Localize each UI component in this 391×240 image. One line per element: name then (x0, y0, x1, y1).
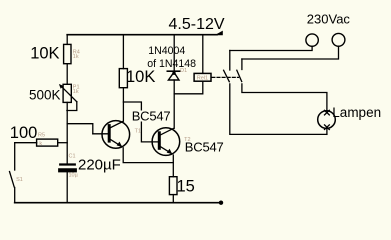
relay contact 2 top lead (241, 59, 243, 70)
svg-text:BC547: BC547 (185, 140, 224, 155)
svg-text:230Vac: 230Vac (307, 12, 351, 27)
transistor Q2 circle (152, 128, 180, 156)
relay contact 1 arm (224, 70, 230, 81)
switch S1 bottom lead (14, 188, 16, 203)
lamp circle (318, 111, 336, 129)
wire left vertical pot to cap (66, 102, 68, 163)
transistor Q2 emitter diagonal (161, 147, 172, 154)
wire coil bottom jog (174, 81, 203, 94)
svg-text:15: 15 (177, 177, 195, 195)
capacitor C1 bottom plate (60, 168, 75, 172)
resistor R5 100 box (37, 139, 58, 146)
relay contact 2 arm (237, 70, 242, 81)
resistor R2 10K box (119, 69, 127, 88)
svg-text:T1: T1 (135, 129, 141, 135)
transistor Q2 base bar (158, 133, 161, 149)
wire rail corner down to R4 (66, 35, 68, 45)
wire 15 ohm to bottom rail (172, 195, 174, 203)
wire rail to coil top (202, 35, 204, 73)
svg-text:Lampen: Lampen (332, 105, 381, 120)
resistor R3 15 box (169, 177, 177, 195)
wire base tap jogs (67, 124, 108, 134)
lamp top cross (325, 110, 330, 115)
relay contact 1 bottom lead to lamp bottom (230, 84, 327, 134)
transistor Q1 circle (102, 121, 130, 149)
capacitor C1 top plate (60, 163, 75, 165)
wire 230V terminal B down-left (242, 46, 339, 59)
wire top supply rail (67, 34, 217, 36)
wire rail to diode (173, 35, 175, 70)
bottom rail end dot (219, 201, 223, 205)
wire T2 emitter to 15 ohm resistor (172, 155, 174, 177)
relay contact 2 bottom lead to lamp top (242, 84, 327, 111)
svg-text:1k: 1k (73, 54, 79, 60)
label BC547 T1 (opaque bg) (131, 111, 169, 122)
svg-text:of 1N4148: of 1N4148 (147, 58, 196, 70)
svg-text:1N4004: 1N4004 (148, 45, 185, 57)
potentiometer arrow (61, 86, 77, 102)
wire R5 right lead (58, 142, 67, 144)
relay coil Rel1 box (194, 73, 211, 81)
wire rail to R2 (122, 35, 124, 69)
diode D1 cathode bar (167, 70, 179, 72)
svg-text:BC547: BC547 (132, 109, 171, 124)
wire cap to bottom rail (66, 172, 68, 202)
lamp bottom cross (325, 125, 330, 130)
wire R5 left lead (15, 142, 37, 144)
resistor R1 10K box (64, 44, 71, 63)
transistor Q1 emitter diagonal (111, 140, 122, 147)
supply arrow head (215, 31, 223, 36)
wire bottom rail (15, 202, 221, 204)
transistor Q1 emitter arrowhead (117, 142, 123, 147)
wire R4 to pot (66, 64, 68, 85)
switch S1 top lead (14, 143, 16, 170)
transistor Q1 collector diagonal (111, 121, 124, 127)
terminal circle A (306, 34, 318, 46)
terminal circle B (332, 33, 345, 46)
svg-text:S1: S1 (16, 177, 23, 183)
diode apex dot (172, 72, 175, 75)
transistor Q1 base bar (108, 126, 111, 142)
svg-text:10K: 10K (30, 45, 59, 63)
svg-text:10µ: 10µ (69, 173, 79, 179)
svg-text:Rel1: Rel1 (197, 76, 208, 82)
relay contact 1 top lead (229, 51, 231, 71)
wire R2 to T1 collector (122, 88, 124, 121)
wire T1 base lead (93, 133, 108, 135)
svg-text:10K: 10K (126, 68, 155, 86)
transistor Q2 collector diagonal (161, 129, 174, 135)
svg-text:D1: D1 (180, 68, 187, 74)
lamp bottom lead (326, 128, 328, 134)
svg-text:220µF: 220µF (78, 156, 121, 173)
pot arrow head (59, 84, 64, 89)
svg-text:500K: 500K (29, 87, 61, 102)
wire T1 collector to T2 base jogs (123, 102, 157, 142)
svg-text:4.5-12V: 4.5-12V (169, 16, 225, 33)
svg-text:C1: C1 (69, 153, 76, 159)
wire pot wiper hook (67, 102, 77, 111)
svg-text:k: k (39, 141, 42, 147)
svg-text:1k: 1k (73, 89, 79, 95)
svg-text:T2: T2 (184, 137, 190, 143)
svg-text:R5: R5 (38, 133, 45, 139)
wire diode to T2 collector (173, 80, 175, 128)
transistor Q2 emitter arrowhead (167, 149, 173, 154)
svg-text:100: 100 (10, 124, 38, 142)
potentiometer P1 500K box (63, 84, 71, 102)
wire T1 emitter down and right (123, 148, 173, 163)
diode D1 triangle (168, 72, 179, 80)
wire 230V terminal A down-left (230, 46, 312, 50)
dashed actuation line (212, 76, 239, 78)
switch S1 arm (10, 172, 15, 188)
